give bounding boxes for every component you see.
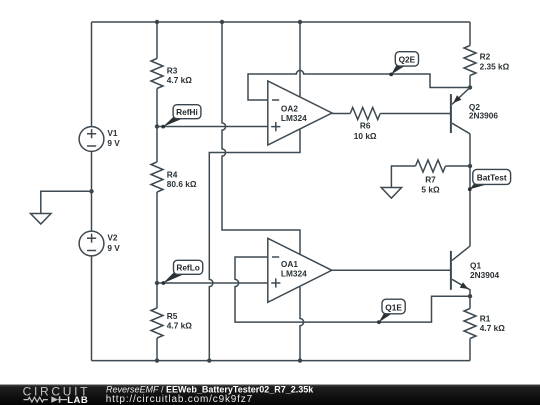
svg-text:R2: R2 (480, 52, 491, 62)
resistor R1 (464, 309, 505, 339)
node Q1 emitter junction (468, 294, 472, 298)
wire OA1 V- to bottom rail (300, 287, 304, 361)
wire OA1 feedback from Q1 emitter to - input (235, 257, 470, 322)
wire to ground (41, 191, 92, 213)
wire R1 to bottom rail (469, 339, 471, 361)
svg-text:V2: V2 (107, 233, 118, 243)
svg-text:4.7 kΩ: 4.7 kΩ (167, 321, 192, 331)
CircuitLab logo resistor squiggle and diode (24, 397, 48, 402)
svg-text:LAB: LAB (67, 395, 88, 405)
svg-text:RefHi: RefHi (176, 107, 198, 117)
voltage source V1 (79, 127, 120, 152)
node bottom rail junction x300 (298, 358, 302, 362)
svg-text:LM324: LM324 (281, 113, 307, 123)
svg-text:2.35 kΩ: 2.35 kΩ (480, 61, 510, 71)
svg-text:5 kΩ: 5 kΩ (421, 185, 440, 195)
wire OA2 V+ from top rail (299, 22, 301, 97)
svg-text:R3: R3 (167, 66, 178, 76)
op-amp OA1 (268, 238, 332, 302)
node RefHi junction (155, 124, 159, 128)
node R7 junction (468, 164, 472, 168)
node Q1E flag (377, 299, 405, 324)
node RefLo flag (162, 260, 203, 285)
wire R5 to bottom rail (156, 338, 158, 361)
resistor R4 (151, 162, 197, 192)
wire Q1 emitter to R1 (469, 296, 471, 308)
svg-text:Q1: Q1 (470, 260, 481, 270)
ground G1 (31, 214, 52, 225)
wire R6 to Q2 base (380, 113, 450, 115)
svg-text:80.6 kΩ: 80.6 kΩ (167, 179, 197, 189)
node Q2 emitter junction (468, 85, 472, 89)
node ground tap junction (89, 189, 93, 193)
svg-text:BatTest: BatTest (477, 172, 507, 182)
wire R2 to Q2 emitter (469, 76, 471, 88)
node Q2E flag (389, 52, 418, 77)
svg-text:4.7 kΩ: 4.7 kΩ (167, 75, 192, 85)
svg-text:Q2E: Q2E (399, 55, 416, 65)
svg-text:OA2: OA2 (281, 103, 298, 113)
svg-text:R6: R6 (360, 121, 371, 131)
svg-text:9 V: 9 V (107, 243, 120, 253)
wire top rail (92, 21, 471, 23)
node bottom rail junction R5 (155, 358, 159, 362)
wire bottom rail (92, 360, 471, 362)
svg-text:LM324: LM324 (281, 269, 307, 279)
node RefHi flag (161, 105, 201, 129)
wire RefHi net to OA2 + input (157, 126, 268, 128)
ground G2 (381, 188, 401, 199)
wire Q2 collector down to Q1 collector (BatTest net) (469, 134, 471, 246)
footer bar (0, 385, 540, 405)
wire left drop to V1 (91, 22, 93, 127)
wire RefLo net to OA1 + input (157, 282, 268, 284)
svg-text:2N3906: 2N3906 (469, 111, 498, 121)
svg-text:4.7 kΩ: 4.7 kΩ (480, 323, 505, 333)
svg-text:V1: V1 (107, 128, 118, 138)
wire OA2 output to R6 (332, 113, 350, 115)
resistor R3 (151, 59, 192, 89)
svg-text:10 kΩ: 10 kΩ (354, 131, 377, 141)
wire R4 to R5 (156, 192, 158, 308)
resistor R7 (416, 160, 446, 195)
voltage source V2 (79, 231, 120, 256)
wire V2 to bottom rail (91, 256, 93, 361)
svg-text:R1: R1 (480, 314, 491, 324)
resistor R2 (464, 46, 510, 76)
op-amp OA2 (268, 81, 332, 145)
wire R2 top lead from rail (469, 22, 471, 46)
svg-text:2N3904: 2N3904 (470, 270, 499, 280)
wire V1 to V2 (91, 151, 93, 231)
svg-text:Q1E: Q1E (385, 302, 402, 312)
wire R7 right lead (446, 165, 471, 167)
transistor Q2 2N3906 (451, 88, 498, 134)
resistor R5 (151, 308, 192, 338)
wire OA2 V- route to bottom rail (209, 130, 300, 361)
node top rail junction x300 (298, 20, 302, 24)
transistor Q1 2N3904 (451, 246, 500, 296)
svg-text:R5: R5 (167, 311, 178, 321)
wire OA2 feedback from Q2 emitter to - input (248, 70, 470, 100)
node top rail junction x222 (220, 20, 224, 24)
svg-text:OA1: OA1 (281, 259, 298, 269)
wire OA1 V+ route from top rail (222, 22, 300, 255)
svg-text:9 V: 9 V (107, 138, 120, 148)
wire R7 left lead to ground (391, 166, 415, 188)
svg-text:R7: R7 (425, 174, 436, 184)
resistor R6 (350, 108, 380, 141)
svg-text:RefLo: RefLo (176, 263, 200, 273)
svg-text:http://circuitlab.com/c9k9fz7: http://circuitlab.com/c9k9fz7 (106, 394, 253, 405)
svg-text:R4: R4 (167, 170, 178, 180)
node BatTest flag (468, 169, 511, 191)
wire resistor column top lead (156, 22, 158, 59)
node top rail junction R3 (155, 20, 159, 24)
wire OA1 output to Q1 base (332, 269, 450, 271)
node bottom rail junction x209 (207, 358, 211, 362)
wire R3 to R4 (156, 89, 158, 163)
node RefLo junction (155, 281, 159, 285)
